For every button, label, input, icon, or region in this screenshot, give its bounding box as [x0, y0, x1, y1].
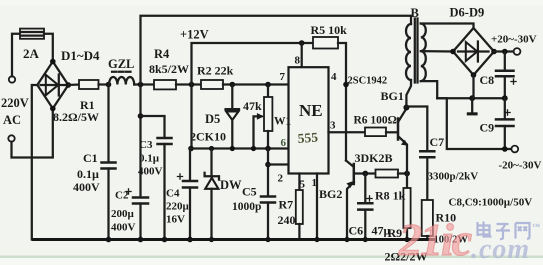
svg-text:0.1µ: 0.1µ	[77, 167, 99, 181]
svg-text:16V: 16V	[166, 214, 185, 226]
svg-text:D6-D9: D6-D9	[450, 6, 485, 20]
svg-text:D1~D4: D1~D4	[61, 48, 100, 63]
svg-text:220µ: 220µ	[166, 201, 190, 213]
svg-text:™: ™	[532, 222, 540, 231]
svg-text:DW: DW	[220, 178, 242, 192]
svg-text:6: 6	[281, 137, 287, 149]
svg-text:C4: C4	[166, 188, 180, 200]
svg-text:R2 22k: R2 22k	[197, 64, 234, 78]
svg-text:R8 1k: R8 1k	[375, 189, 406, 203]
svg-text:2SC1942: 2SC1942	[348, 76, 388, 87]
svg-text:C8: C8	[480, 73, 495, 87]
svg-text:+20~-30V: +20~-30V	[491, 34, 537, 46]
svg-text:AC: AC	[3, 113, 21, 127]
svg-text:200µ: 200µ	[111, 208, 135, 220]
svg-text:555: 555	[297, 130, 318, 146]
svg-text:R5 10k: R5 10k	[311, 23, 348, 37]
svg-text:8: 8	[295, 55, 301, 67]
svg-text:3: 3	[330, 120, 336, 132]
svg-text:C3: C3	[139, 139, 153, 151]
svg-text:BG1: BG1	[381, 89, 404, 103]
svg-text:4: 4	[331, 71, 337, 83]
svg-text:C5: C5	[242, 185, 257, 199]
svg-text:8k5/2W: 8k5/2W	[149, 62, 189, 76]
svg-text:7: 7	[280, 71, 286, 83]
svg-text:0.1µ: 0.1µ	[139, 153, 160, 165]
svg-text:2A: 2A	[23, 46, 40, 61]
svg-text:D5: D5	[205, 112, 220, 126]
svg-text:2: 2	[278, 173, 284, 185]
svg-text:400V: 400V	[138, 166, 163, 178]
svg-text:W1: W1	[274, 116, 292, 128]
svg-text:R6 100Ω: R6 100Ω	[354, 115, 397, 127]
svg-text:220V: 220V	[1, 96, 29, 110]
svg-text:47k: 47k	[243, 99, 262, 113]
svg-text:240: 240	[278, 213, 296, 227]
svg-text:C1: C1	[83, 151, 98, 165]
svg-text:R7: R7	[279, 198, 294, 212]
svg-text:1: 1	[312, 177, 318, 189]
svg-text:2CK10: 2CK10	[190, 130, 226, 144]
svg-text:B: B	[411, 6, 419, 20]
svg-text:C6: C6	[349, 224, 364, 238]
svg-text:3300p/2kV: 3300p/2kV	[428, 171, 479, 183]
svg-text:R4: R4	[154, 47, 170, 61]
svg-text:21ic: 21ic	[398, 214, 472, 265]
svg-text:C7: C7	[430, 135, 445, 149]
svg-text:5: 5	[300, 179, 306, 191]
svg-text:C9: C9	[480, 121, 495, 135]
svg-text:400V: 400V	[111, 222, 136, 234]
svg-text:GZL: GZL	[108, 57, 134, 71]
svg-text:8.2Ω/5W: 8.2Ω/5W	[53, 110, 99, 124]
svg-text:.com: .com	[471, 234, 530, 265]
svg-text:NE: NE	[299, 101, 323, 120]
svg-text:C8,C9:1000µ/50V: C8,C9:1000µ/50V	[449, 197, 533, 209]
svg-text:1000p: 1000p	[232, 201, 261, 213]
svg-text:400V: 400V	[73, 180, 100, 194]
svg-text:BG2: BG2	[319, 187, 342, 201]
svg-text:3DK2B: 3DK2B	[355, 151, 393, 165]
svg-text:+12V: +12V	[180, 28, 209, 42]
svg-text:-20~-30V: -20~-30V	[499, 160, 542, 172]
